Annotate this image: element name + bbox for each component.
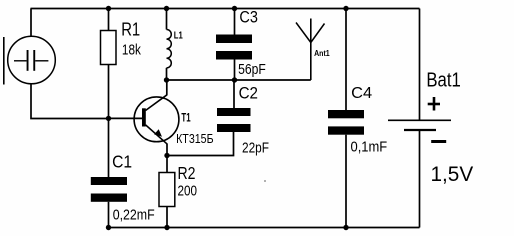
wire: microphone top lead	[30, 9, 32, 37]
junction: C4 / bottom rail	[343, 225, 348, 230]
svg-text:R1: R1	[121, 20, 140, 40]
wire: C3 top lead	[234, 9, 236, 35]
wire: collector lead up to tank node	[166, 80, 168, 95]
wire: R1 top lead	[108, 9, 110, 31]
junction: top rail / C3	[232, 6, 237, 11]
plus sign	[428, 97, 440, 111]
capacitor C4	[328, 110, 364, 118]
inductor L1	[167, 30, 172, 68]
wire: L1 top lead	[166, 9, 168, 30]
junction: top rail / L1	[164, 6, 169, 11]
junction: top rail / R1	[106, 6, 111, 11]
capacitor C2	[217, 108, 251, 116]
artifact speck	[264, 180, 266, 182]
svg-text:0,1mF: 0,1mF	[351, 138, 388, 155]
wire: battery right side drop (top rail to battery plus plate)	[419, 9, 421, 121]
junction: C1 / bottom rail	[106, 225, 111, 230]
antenna Ant1	[296, 19, 325, 81]
transistor T1	[134, 95, 179, 144]
capacitor C1	[91, 177, 127, 185]
junction: C3 / C2 tap on tank line	[232, 77, 237, 82]
svg-text:L1: L1	[174, 31, 183, 42]
svg-text:0,22mF: 0,22mF	[113, 207, 155, 224]
wire: tank node to antenna (horizontal)	[167, 79, 311, 81]
svg-text:C4: C4	[351, 85, 372, 102]
svg-text:C3: C3	[239, 8, 258, 27]
svg-text:1,5V: 1,5V	[431, 162, 474, 186]
svg-text:C1: C1	[112, 151, 132, 171]
wire: bottom ground rail	[109, 227, 420, 229]
capacitor C3	[216, 35, 252, 44]
svg-text:КТ315Б: КТ315Б	[176, 132, 214, 146]
wire: R2 bottom lead	[166, 207, 168, 228]
resistor R1	[101, 31, 117, 65]
wire: C2 bottom lead to emitter node	[167, 132, 234, 156]
wire: battery minus plate to bottom rail	[419, 130, 421, 228]
wire: C4 bottom lead	[345, 135, 347, 228]
wire: base lead from base node to T1	[109, 117, 143, 119]
svg-text:200: 200	[178, 182, 198, 199]
svg-text:56pF: 56pF	[238, 61, 266, 78]
svg-text:R2: R2	[178, 163, 196, 183]
resistor R2	[159, 173, 175, 207]
wire: C4 top lead	[345, 9, 347, 111]
wire: R1 bottom lead down through base node to C1	[108, 65, 110, 178]
wire: top supply rail	[31, 8, 420, 10]
svg-text:Ant1: Ant1	[314, 48, 330, 58]
microphone M1	[4, 36, 56, 84]
wire: L1 bottom lead	[166, 68, 168, 80]
junction: top rail / C4	[343, 6, 348, 11]
wire: C2 top lead	[233, 80, 235, 108]
junction: L1 / collector / tank node	[164, 77, 169, 82]
junction: emitter / C2 / R2	[164, 153, 169, 158]
minus sign	[431, 140, 446, 143]
wire: R2 top lead	[166, 156, 168, 173]
svg-text:T1: T1	[181, 111, 190, 125]
wire: C3 bottom lead	[234, 60, 236, 81]
wire: emitter lead down to emitter node	[166, 144, 168, 156]
junction: base node (R1 / mic / base / C1)	[106, 116, 111, 121]
junction: R2 / bottom rail	[164, 225, 169, 230]
svg-text:C2: C2	[239, 83, 258, 102]
svg-text:18k: 18k	[122, 41, 141, 58]
svg-text:22pF: 22pF	[242, 139, 269, 156]
wire: microphone bottom lead to base node	[31, 84, 109, 119]
svg-text:Bat1: Bat1	[426, 69, 460, 91]
battery Bat1	[388, 120, 451, 130]
wire: C1 bottom lead	[108, 202, 110, 228]
